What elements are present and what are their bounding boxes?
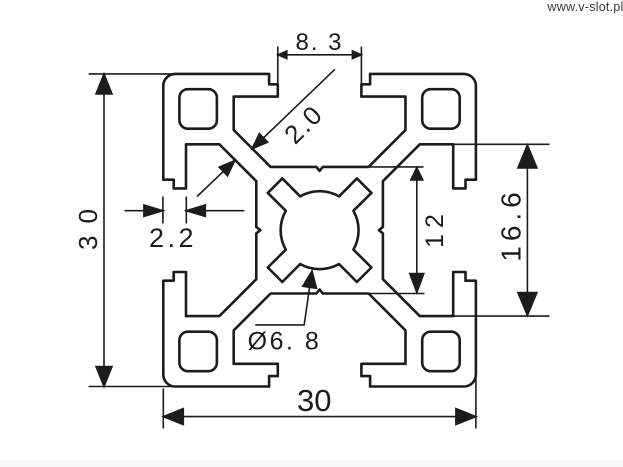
svg-text:2.0: 2.0 [278, 99, 329, 150]
dimension 12 [369, 167, 425, 294]
corner hole BL [179, 332, 217, 372]
svg-text:2.2: 2.2 [149, 223, 197, 253]
svg-text:30: 30 [73, 197, 103, 250]
dimension 30 left [89, 74, 176, 387]
center bore with X slits [268, 178, 372, 282]
corner hole TR [422, 89, 460, 129]
dimension 8.3 top [278, 47, 362, 85]
profile outline [163, 74, 476, 387]
corner hole TL [179, 89, 217, 129]
svg-text:Ø6. 8: Ø6. 8 [248, 328, 322, 356]
corner hole BR [422, 332, 460, 372]
svg-text:30: 30 [297, 383, 331, 418]
svg-text:8. 3: 8. 3 [295, 29, 343, 56]
svg-text:www.v-slot.pl: www.v-slot.pl [546, 0, 623, 14]
dimension diameter 6.8 leader [255, 271, 316, 325]
dimension 30 bottom [163, 377, 476, 429]
dimension 16.6 [420, 144, 550, 316]
dimension 2.0 leader [197, 69, 335, 196]
svg-text:12: 12 [421, 208, 449, 248]
faint bottom band [0, 461, 623, 467]
svg-text:16.6: 16.6 [496, 187, 527, 262]
dimension 2.2 left [125, 197, 245, 224]
